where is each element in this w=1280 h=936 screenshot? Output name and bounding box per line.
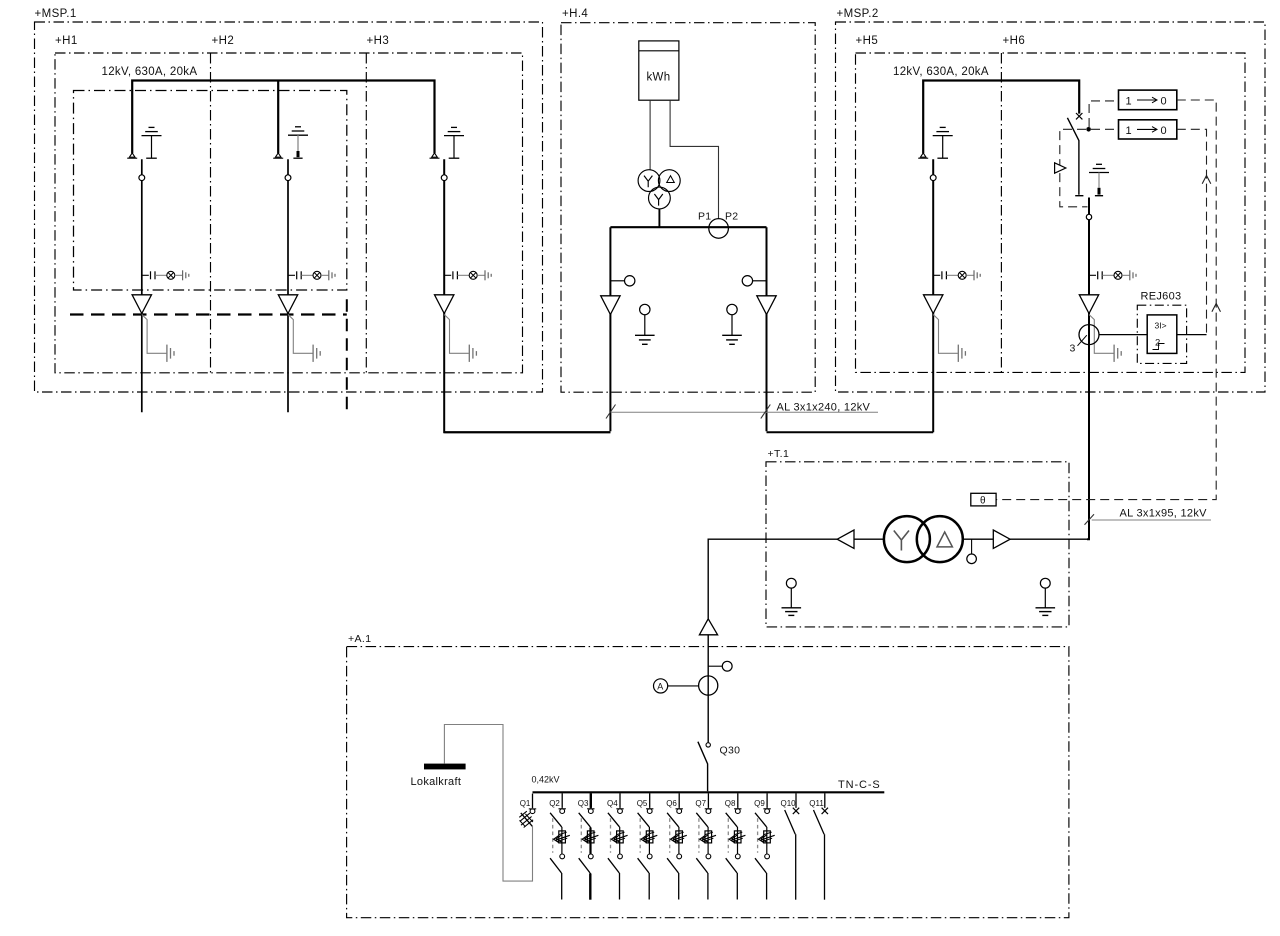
- cable screen earth H6: [1089, 315, 1121, 362]
- kWh meter U1: [639, 41, 679, 100]
- busbar H.4: [610, 226, 766, 228]
- enclosure box +T.1: [766, 462, 1069, 627]
- Lokalkraft busbar: [424, 764, 466, 770]
- svg-text:REJ603: REJ603: [1141, 291, 1182, 303]
- busbar MSP.2: [923, 81, 1079, 154]
- cable screen earth H2: [288, 315, 320, 362]
- relay REJ603 dashed enclosure: [1137, 305, 1186, 363]
- divider H5/H6: [1000, 53, 1002, 372]
- tap changer stem: [971, 539, 973, 554]
- winding symbol Y: [894, 531, 909, 551]
- cable termination H1: [132, 295, 151, 314]
- cable termination H.4 right: [757, 296, 776, 315]
- LV flow arrow: [837, 530, 854, 548]
- tap changer circle: [967, 554, 977, 564]
- VT stem to busbar: [658, 209, 660, 227]
- feeder Q5: [638, 793, 658, 899]
- meter lead left: [649, 100, 651, 170]
- cable screen earth H3: [444, 315, 476, 362]
- trip link from junction to box 2: [1091, 128, 1119, 130]
- svg-text:0: 0: [1161, 125, 1167, 137]
- feeder Q1 plug symbol (hatched): [519, 811, 533, 827]
- voltage indicator branch H6: [1089, 270, 1136, 280]
- LV incomer line: [707, 635, 709, 743]
- cable slash: [1085, 514, 1095, 525]
- mechanism linkage dashed: [1060, 129, 1088, 207]
- svg-text:Q11: Q11: [809, 799, 824, 808]
- transformer T1 primary winding: [884, 516, 930, 562]
- earthing switch H2 (closed, gray stem): [288, 127, 308, 158]
- cable slash left: [606, 405, 616, 419]
- earthing point right: [722, 304, 742, 344]
- relay output wire: [1177, 334, 1207, 336]
- heavy dashed boundary bottom: [70, 313, 347, 315]
- enclosure box +H.4: [561, 23, 815, 393]
- svg-text:+H5: +H5: [856, 35, 879, 47]
- svg-text:+H1: +H1: [55, 35, 78, 47]
- svg-text:0,42kV: 0,42kV: [532, 775, 560, 785]
- link to H3 cable: [444, 431, 610, 433]
- ring CT count slash: [1078, 335, 1087, 346]
- feeder Q9: [755, 793, 775, 899]
- switch blade H6 (open): [1067, 118, 1079, 195]
- transformer T1 secondary winding: [917, 516, 963, 562]
- svg-text:AL 3x1x95, 12kV: AL 3x1x95, 12kV: [1120, 508, 1208, 520]
- voltage transformer T5 (three windings): [638, 170, 680, 209]
- earthing point left: [635, 304, 655, 344]
- earthing switch H3: [444, 127, 464, 158]
- earthing switch H6 (closed): [1089, 164, 1109, 195]
- svg-text:Q30: Q30: [720, 745, 741, 757]
- earthing switch H1: [142, 127, 162, 158]
- svg-text:Q8: Q8: [725, 799, 736, 808]
- cable slash right: [761, 405, 771, 419]
- feeder Q1 contact: [529, 794, 536, 814]
- arrow up on temperature trip wire: [1212, 304, 1221, 312]
- divider H2/H3: [365, 53, 367, 373]
- cable termination H2: [278, 295, 297, 314]
- divider H1/H2: [210, 53, 212, 373]
- isolating contact circle H6: [1086, 214, 1091, 219]
- voltage indicator branch H5: [933, 270, 980, 280]
- link to H5 cable: [767, 431, 934, 433]
- svg-text:3I>: 3I>: [1155, 321, 1167, 331]
- feeder line H3: [444, 159, 610, 432]
- voltage indicator branch H1: [142, 270, 189, 280]
- MV flow arrow: [993, 530, 1010, 548]
- svg-text:Q1: Q1: [520, 799, 531, 808]
- current transformer P1 P2: [709, 219, 729, 239]
- svg-text:1: 1: [1126, 96, 1132, 108]
- svg-text:TN-C-S: TN-C-S: [838, 779, 881, 791]
- isolating contact circle H3: [441, 175, 447, 181]
- cubicle box H1-H3: [55, 53, 523, 373]
- trip link from junction to box 1: [1089, 101, 1118, 127]
- drawout contact H1: [127, 153, 137, 158]
- svg-text:Q9: Q9: [754, 799, 765, 808]
- riser right H.4: [766, 227, 768, 431]
- test contact branch: [708, 661, 732, 671]
- enclosure box +MSP.2: [836, 22, 1266, 392]
- earth T.1 right: [1036, 578, 1056, 615]
- feeder Q7: [696, 793, 716, 899]
- drawout contact H5: [918, 153, 928, 158]
- svg-text:Q5: Q5: [637, 799, 648, 808]
- svg-text:P1: P1: [698, 211, 711, 223]
- switch-fuse H6 fixed contact x: [1076, 113, 1082, 119]
- meter lead right: [670, 100, 718, 219]
- LV busbar TN-C-S: [533, 791, 885, 793]
- heavy dashed boundary right edge: [346, 299, 348, 412]
- enclosure box +MSP.1: [35, 22, 543, 392]
- cubicle box H5-H6: [856, 53, 1246, 372]
- svg-text:+H.4: +H.4: [562, 8, 588, 20]
- cable leader AL 3x1x95: [1092, 519, 1211, 521]
- feeder Q4: [608, 793, 628, 899]
- disconnect contact right: [742, 276, 766, 286]
- svg-text:+MSP.2: +MSP.2: [837, 8, 879, 20]
- drawout contact H3: [430, 153, 440, 158]
- arrow up on relay trip wire: [1202, 176, 1211, 184]
- cable screen earth H5: [933, 315, 965, 362]
- svg-text:+H2: +H2: [212, 35, 235, 47]
- cable termination H3: [435, 295, 454, 314]
- cable termination H5: [924, 295, 943, 314]
- svg-text:0: 0: [1161, 96, 1167, 108]
- svg-text:+T.1: +T.1: [768, 448, 790, 460]
- svg-text:P2: P2: [725, 211, 738, 223]
- LV cable termination (up): [699, 619, 717, 635]
- busbar MSP.1: [132, 81, 434, 154]
- svg-text:Q10: Q10: [781, 799, 797, 808]
- svg-text:12kV, 630A, 20kA: 12kV, 630A, 20kA: [893, 66, 989, 78]
- svg-text:Q2: Q2: [549, 799, 560, 808]
- cable leader AL 3x1x240: [612, 411, 878, 413]
- winding symbol delta: [937, 532, 952, 547]
- feeder Q3 bold emphasis: [589, 793, 592, 899]
- feeder Q11 (reserve): [814, 793, 829, 899]
- cable screen earth H1: [142, 315, 174, 362]
- svg-text:3: 3: [1070, 343, 1076, 355]
- svg-text:kWh: kWh: [647, 72, 671, 84]
- switch Q30 blade: [698, 742, 708, 792]
- switch lower contact bar H6: [1075, 195, 1083, 197]
- feeder Q3: [579, 793, 599, 899]
- junction dot: [1086, 127, 1091, 132]
- feeder Q2: [550, 793, 570, 899]
- Lokalkraft wire: [444, 725, 532, 882]
- svg-text:Q3: Q3: [578, 799, 589, 808]
- feeder Q6: [667, 793, 687, 899]
- cable termination H6: [1079, 295, 1098, 314]
- actuator symbol: [1055, 163, 1066, 173]
- retrofit boundary box around H1+H2 feeders: [74, 91, 347, 291]
- voltage indicator branch H2: [288, 270, 335, 280]
- drawout contact H2: [273, 153, 283, 158]
- relay REJ603 function box: [1147, 315, 1177, 354]
- svg-text:+A.1: +A.1: [348, 633, 372, 645]
- svg-text:12kV, 630A, 20kA: 12kV, 630A, 20kA: [102, 66, 198, 78]
- svg-text:+H6: +H6: [1003, 35, 1026, 47]
- trip wire relay to box 2 dashed: [1177, 129, 1207, 334]
- disconnect contact left: [610, 276, 635, 286]
- ring CT for REJ603: [1079, 325, 1099, 345]
- svg-text:Q7: Q7: [695, 799, 706, 808]
- isolating contact circle H2: [285, 175, 291, 181]
- svg-text:2: 2: [1155, 338, 1160, 349]
- trip box 2 (1 to 0): [1119, 120, 1177, 139]
- CT secondary wire to relay: [1099, 334, 1147, 336]
- svg-text:Q6: Q6: [666, 799, 677, 808]
- switch Q30 contact: [706, 743, 710, 747]
- svg-text:A: A: [657, 681, 663, 691]
- MV primary line: [963, 538, 1088, 540]
- riser left H.4: [609, 227, 611, 431]
- earth T.1 left: [782, 578, 802, 615]
- thermal sensor box theta: [971, 493, 996, 506]
- ring CT LV: [699, 676, 718, 695]
- feeder line H5: [932, 159, 934, 432]
- voltage indicator branch H3: [444, 270, 491, 280]
- feeder line H1: [141, 159, 143, 412]
- feeder line H6 lower: [1087, 198, 1089, 540]
- svg-text:Q4: Q4: [607, 799, 618, 808]
- earthing switch H5: [933, 127, 953, 158]
- LV secondary line to A.1: [708, 539, 884, 619]
- svg-text:AL 3x1x240, 12kV: AL 3x1x240, 12kV: [777, 402, 871, 414]
- feeder Q10 (reserve): [785, 793, 800, 899]
- temperature trip wire box1 to theta dashed: [996, 100, 1216, 500]
- ammeter A: [654, 679, 699, 693]
- enclosure box +A.1: [347, 647, 1069, 918]
- isolating contact circle H5: [930, 175, 936, 181]
- trip box 1 (1 to 0): [1119, 90, 1177, 110]
- svg-text:1: 1: [1126, 125, 1132, 137]
- svg-text:+MSP.1: +MSP.1: [35, 8, 77, 20]
- svg-text:+H3: +H3: [367, 35, 390, 47]
- feeder Q8: [726, 793, 746, 899]
- svg-text:θ: θ: [980, 495, 986, 506]
- isolating contact circle H1: [139, 175, 145, 181]
- feeder line H2: [287, 159, 289, 412]
- cable termination H.4 left: [601, 296, 620, 315]
- svg-text:Lokalkraft: Lokalkraft: [411, 776, 462, 788]
